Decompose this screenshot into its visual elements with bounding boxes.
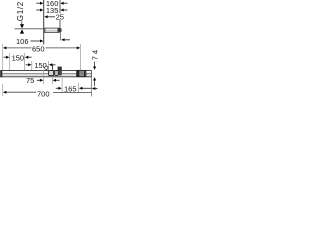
arm end cap (57, 28, 61, 33)
holder mount above bar (58, 67, 62, 71)
dim 135 (36, 6, 67, 15)
svg-text:74: 74 (90, 48, 99, 60)
wall bar body (front view) (0, 71, 91, 78)
svg-text:650: 650 (32, 45, 45, 54)
svg-text:25: 25 (56, 12, 64, 21)
dim 700 (3, 84, 92, 99)
outside arrow at right extension (92, 87, 98, 90)
dim 650 (3, 44, 81, 70)
extension line bar axis (side view) (59, 0, 61, 28)
dim 25 (44, 12, 64, 21)
svg-text:106: 106 (16, 37, 29, 46)
leader below arm cap (61, 33, 70, 42)
bar left end cap (0, 70, 2, 77)
wall line (side view) (43, 0, 45, 45)
leader line from G1/2 (21, 21, 23, 24)
bar right end extension line (91, 70, 93, 96)
dim 150 right (26, 61, 56, 77)
dim 106 (16, 37, 43, 46)
arrow down to plate (20, 24, 24, 28)
right wall bracket (77, 70, 86, 76)
svg-text:150: 150 (12, 53, 25, 62)
svg-text:G1/2: G1/2 (16, 1, 25, 21)
dim 165 (56, 78, 92, 94)
extension line at arm top (15, 28, 45, 30)
support arm (side view) (44, 28, 59, 32)
arrow up to plate (20, 29, 24, 33)
svg-text:700: 700 (37, 90, 50, 99)
dim 150 left (4, 53, 32, 77)
svg-text:75: 75 (26, 76, 34, 85)
slider knob above bar (45, 66, 48, 69)
slider body on bar (49, 71, 54, 76)
slider lever (52, 64, 54, 70)
dim 74 (90, 48, 99, 86)
dim 160 (36, 0, 67, 8)
dim 75 (26, 70, 60, 85)
